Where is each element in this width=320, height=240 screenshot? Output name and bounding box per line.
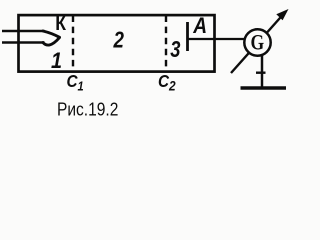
svg-text:Рис.19.2: Рис.19.2 — [57, 99, 118, 120]
light ray lower (cathode arrow bottom) — [2, 41, 45, 43]
light ray upper (cathode arrow top) — [2, 30, 45, 32]
grid C1 (dashed electrode) — [72, 16, 74, 72]
svg-text:2: 2 — [113, 27, 124, 54]
anode label A — [192, 14, 207, 39]
cathode arrowhead K — [43, 31, 60, 45]
label C2 — [158, 71, 176, 94]
ground bar — [241, 86, 287, 90]
anode plate electrode — [186, 22, 189, 51]
wire galvanometer to ground — [261, 55, 264, 88]
svg-text:К: К — [55, 12, 66, 34]
label C1 — [67, 71, 84, 94]
galvanometer needle arrow — [231, 9, 289, 73]
galvanometer G — [244, 29, 270, 55]
cathode label K — [55, 12, 66, 34]
ground tick bar — [256, 71, 266, 73]
svg-text:С2: С2 — [158, 71, 176, 94]
svg-text:1: 1 — [51, 49, 62, 73]
svg-text:3: 3 — [170, 37, 180, 63]
wire anode to galvanometer — [188, 38, 247, 40]
svg-text:G: G — [250, 31, 264, 55]
grid C2 (dashed electrode) — [165, 16, 167, 72]
caption Rys.19.2 — [57, 99, 118, 120]
region label 3 — [170, 37, 180, 63]
region label 2 — [113, 27, 124, 54]
svg-text:А: А — [192, 14, 207, 39]
tube envelope — [19, 15, 215, 72]
svg-text:С1: С1 — [67, 71, 84, 94]
electrode label 1 — [51, 49, 62, 73]
